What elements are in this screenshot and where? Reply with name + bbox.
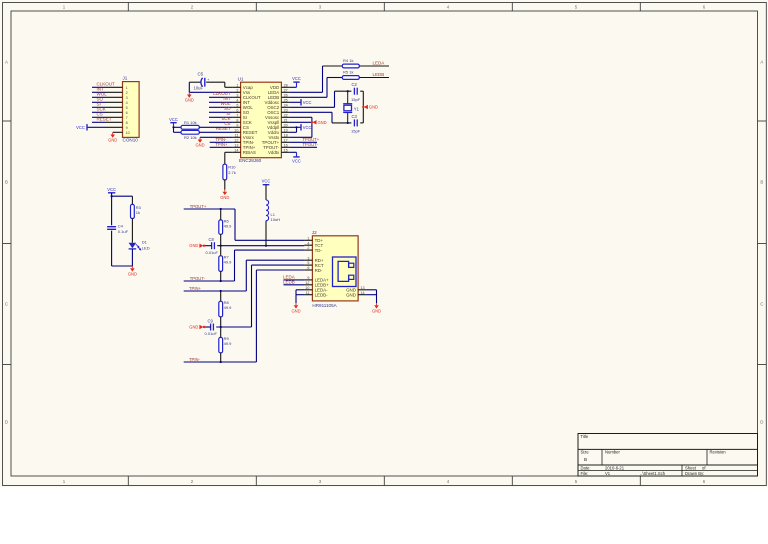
svg-text:1: 1 bbox=[236, 83, 238, 87]
svg-text:14: 14 bbox=[234, 148, 238, 152]
svg-text:25: 25 bbox=[284, 98, 288, 102]
wire TPIN- to RD- bbox=[256, 270, 304, 362]
capacitor C2 15pF bbox=[351, 82, 361, 102]
svg-text:13: 13 bbox=[361, 286, 365, 290]
svg-text:File:: File: bbox=[581, 471, 589, 476]
svg-text:10uH: 10uH bbox=[271, 217, 281, 222]
svg-text:TPIN+: TPIN+ bbox=[216, 142, 229, 147]
ground at U1 pin 11 bbox=[195, 137, 204, 147]
svg-text:GND: GND bbox=[189, 243, 198, 248]
node TPOUT- wire bbox=[184, 276, 235, 282]
svg-text:Number: Number bbox=[605, 450, 620, 455]
svg-text:C: C bbox=[5, 302, 8, 307]
svg-text:Drawn By:: Drawn By: bbox=[685, 471, 704, 476]
svg-text:10: 10 bbox=[305, 286, 309, 290]
svg-text:7: 7 bbox=[236, 113, 238, 117]
wire J2 LED cathodes to ground bbox=[296, 290, 304, 303]
svg-text:49.9: 49.9 bbox=[224, 341, 233, 346]
wire and node SI at U1 bbox=[209, 111, 233, 117]
svg-text:A: A bbox=[5, 60, 8, 65]
capacitor C9 0.01uF bbox=[204, 319, 218, 337]
svg-text:Title: Title bbox=[581, 434, 589, 439]
resistor R9 49.9 RX lower bbox=[219, 327, 232, 362]
wire and node SO at U1 bbox=[209, 106, 233, 112]
wire TPOUT- to TD- bbox=[235, 250, 305, 281]
svg-text:11: 11 bbox=[306, 291, 310, 295]
node TPIN+ wire bbox=[184, 286, 247, 291]
svg-text:27: 27 bbox=[284, 88, 288, 92]
svg-text:11: 11 bbox=[235, 133, 239, 137]
svg-text:2010-6-21: 2010-6-21 bbox=[605, 465, 625, 470]
svg-text:12: 12 bbox=[305, 281, 309, 285]
wire RX center node to RCT bbox=[216, 265, 304, 328]
svg-text:VCC: VCC bbox=[303, 100, 312, 105]
svg-text:GND: GND bbox=[346, 293, 356, 298]
svg-text:4: 4 bbox=[236, 98, 238, 102]
svg-text:3: 3 bbox=[307, 256, 309, 260]
svg-text:Size: Size bbox=[581, 450, 590, 455]
svg-text:TD-: TD- bbox=[315, 248, 323, 253]
wire and node SCK at U1 bbox=[209, 116, 233, 122]
power VCC at LED circuit bbox=[107, 187, 116, 193]
svg-text:D1: D1 bbox=[142, 240, 148, 245]
crystal Y1 bbox=[343, 90, 359, 124]
svg-text:2: 2 bbox=[236, 88, 238, 92]
ground at LED circuit bbox=[128, 266, 137, 276]
svg-text:TPIN+: TPIN+ bbox=[189, 286, 202, 291]
svg-text:0.01uF: 0.01uF bbox=[206, 250, 219, 255]
svg-text:LEDB-: LEDB- bbox=[315, 293, 328, 298]
resistor R3 1k bbox=[131, 204, 142, 242]
svg-text:17: 17 bbox=[284, 138, 288, 142]
svg-text:TPOUT+: TPOUT+ bbox=[190, 204, 207, 209]
svg-text:Vddtx: Vddtx bbox=[268, 150, 280, 155]
svg-text:B: B bbox=[5, 180, 8, 185]
svg-text:GND: GND bbox=[220, 195, 229, 200]
svg-text:GND: GND bbox=[369, 105, 378, 110]
svg-text:10uF: 10uF bbox=[194, 86, 204, 91]
svg-text:HR911105A: HR911105A bbox=[312, 303, 337, 308]
svg-text:R1 10k: R1 10k bbox=[184, 120, 197, 125]
svg-text:5: 5 bbox=[126, 106, 128, 110]
node TPIN+ at U1 bbox=[210, 142, 233, 147]
svg-text:VCC: VCC bbox=[292, 76, 301, 81]
svg-text:C9: C9 bbox=[208, 319, 214, 324]
svg-text:4: 4 bbox=[307, 241, 309, 245]
svg-text:5: 5 bbox=[236, 103, 238, 107]
svg-text:2: 2 bbox=[126, 91, 128, 95]
power VCC at U1 pin 15 bbox=[289, 152, 300, 163]
svg-text:49.9: 49.9 bbox=[224, 260, 233, 265]
svg-text:C3: C3 bbox=[352, 114, 358, 119]
node TPOUT- at U1 bbox=[289, 142, 318, 147]
svg-text:B: B bbox=[584, 457, 587, 462]
svg-text:10: 10 bbox=[234, 128, 238, 132]
svg-text:10: 10 bbox=[126, 131, 130, 135]
wire and node CLKOUT at U1 bbox=[209, 91, 233, 97]
svg-text:GND: GND bbox=[185, 98, 194, 103]
resistor R10 2.7k on RBIAS bbox=[223, 152, 236, 189]
ground at U1 pins 21 22 18 bbox=[311, 120, 327, 125]
svg-text:CON10: CON10 bbox=[123, 138, 139, 143]
svg-text:21: 21 bbox=[284, 118, 288, 122]
svg-text:0.1uF: 0.1uF bbox=[118, 229, 129, 234]
svg-text:VCC: VCC bbox=[303, 125, 312, 130]
ground at R10 bbox=[220, 190, 229, 200]
wire to LEDA label bbox=[359, 65, 389, 67]
wire OSC1 to crystal bbox=[289, 112, 363, 123]
power VCC at pull-ups bbox=[169, 117, 178, 127]
svg-text:V1: V1 bbox=[605, 471, 611, 476]
capacitor C3 15pF bbox=[351, 114, 361, 134]
svg-text:TPIN-: TPIN- bbox=[189, 357, 201, 362]
inductor L1 10uH bbox=[262, 179, 281, 247]
wire LEDB from U1 pin 26 bbox=[289, 78, 342, 98]
svg-text:GND: GND bbox=[291, 308, 300, 313]
svg-text:U1: U1 bbox=[238, 76, 244, 81]
svg-text:4: 4 bbox=[126, 101, 128, 105]
wire to LEDB label bbox=[359, 77, 389, 79]
svg-text:3: 3 bbox=[126, 96, 128, 100]
svg-text:6: 6 bbox=[236, 108, 238, 112]
capacitor C5 10uF at Vcap bbox=[189, 71, 232, 90]
svg-text:2.7k: 2.7k bbox=[228, 170, 236, 175]
svg-text:R5 1k: R5 1k bbox=[343, 70, 353, 75]
svg-text:RESET: RESET bbox=[97, 116, 112, 121]
svg-text:7: 7 bbox=[126, 116, 128, 120]
svg-text:15pF: 15pF bbox=[351, 97, 361, 102]
resistor R4 1k LEDA bbox=[342, 58, 359, 68]
svg-text:22: 22 bbox=[284, 113, 288, 117]
svg-text:49.9: 49.9 bbox=[224, 224, 233, 229]
wire LED circuit rails bbox=[111, 193, 133, 266]
svg-text:28: 28 bbox=[284, 83, 288, 87]
svg-text:Y1: Y1 bbox=[354, 107, 360, 112]
svg-text:VCC: VCC bbox=[169, 117, 178, 122]
svg-text:D: D bbox=[760, 420, 763, 425]
wire Vss to GND loop bbox=[189, 82, 232, 92]
svg-text:R4 1k: R4 1k bbox=[343, 58, 353, 63]
capacitor C8 0.01uF bbox=[204, 237, 219, 255]
connector J1 CON10 bbox=[92, 76, 139, 143]
svg-text:23: 23 bbox=[284, 108, 288, 112]
svg-text:19: 19 bbox=[284, 128, 288, 132]
svg-text:GND: GND bbox=[318, 120, 327, 125]
svg-text:VCC: VCC bbox=[76, 125, 85, 130]
resistor R6 49.9 TX upper bbox=[219, 208, 232, 246]
svg-text:Date:: Date: bbox=[581, 465, 591, 470]
svg-text:B: B bbox=[760, 180, 763, 185]
svg-text:GND: GND bbox=[189, 325, 198, 330]
svg-text:9: 9 bbox=[126, 126, 128, 130]
svg-text:LED: LED bbox=[142, 245, 150, 250]
svg-text:GND: GND bbox=[108, 138, 117, 143]
svg-text:R2 10k: R2 10k bbox=[184, 135, 197, 140]
svg-text:C5: C5 bbox=[198, 71, 204, 76]
ground at J2 LED pins bbox=[291, 303, 300, 313]
node TPIN- wire bbox=[184, 357, 257, 363]
svg-text:26: 26 bbox=[284, 93, 288, 97]
resistor R7 49.9 TX lower bbox=[219, 246, 232, 281]
LED D1 bbox=[129, 240, 150, 266]
svg-text:TPOUT-: TPOUT- bbox=[190, 276, 206, 281]
svg-text:20: 20 bbox=[284, 123, 288, 127]
svg-text:8: 8 bbox=[236, 118, 238, 122]
resistor R1 10k pull-up on CS bbox=[174, 120, 233, 129]
svg-text:+: + bbox=[207, 78, 209, 82]
svg-text:14: 14 bbox=[361, 291, 365, 295]
svg-text:C2: C2 bbox=[352, 82, 358, 87]
svg-text:..\Sheet1.Sch: ..\Sheet1.Sch bbox=[640, 471, 666, 476]
ground at J2 shield bbox=[372, 303, 381, 313]
svg-text:5: 5 bbox=[307, 261, 309, 265]
wire U1 pin 11 Vssrx bbox=[200, 136, 233, 138]
svg-text:TPOUT-: TPOUT- bbox=[303, 142, 319, 147]
svg-text:16: 16 bbox=[284, 143, 288, 147]
title block bbox=[578, 434, 758, 477]
wire TX center node to TCT bbox=[217, 245, 304, 247]
svg-text:VCC: VCC bbox=[107, 187, 116, 192]
svg-text:RD-: RD- bbox=[315, 268, 323, 273]
ground at J1 pin 10 bbox=[108, 132, 117, 142]
svg-text:J2: J2 bbox=[312, 230, 317, 235]
power VCC at J1 pin 9 bbox=[76, 124, 92, 130]
svg-text:9: 9 bbox=[236, 123, 238, 127]
ground at U1 pin 2 / C5 bbox=[185, 92, 194, 102]
svg-text:GND: GND bbox=[372, 308, 381, 313]
svg-text:49.9: 49.9 bbox=[224, 305, 233, 310]
svg-text:15pF: 15pF bbox=[351, 129, 361, 134]
svg-text:LEDB: LEDB bbox=[283, 279, 295, 284]
wire Vss pins 21 22 18 to ground bbox=[289, 117, 312, 137]
power VCC at U1 pin 25 bbox=[289, 99, 311, 105]
svg-text:Revision: Revision bbox=[710, 450, 727, 455]
svg-text:24: 24 bbox=[284, 103, 288, 107]
svg-text:9: 9 bbox=[307, 276, 309, 280]
svg-text:6: 6 bbox=[126, 111, 128, 115]
svg-text:Sheet: Sheet bbox=[685, 465, 697, 470]
resistor R5 1k LEDB bbox=[342, 70, 359, 80]
capacitor C4 0.1uF bbox=[107, 224, 128, 234]
svg-text:12: 12 bbox=[234, 138, 238, 142]
power VCC at U1 pins 20 19 bbox=[289, 124, 311, 132]
wire VCC rail for pull-ups bbox=[173, 127, 175, 132]
node TPOUT+ at U1 bbox=[289, 137, 319, 142]
svg-text:13: 13 bbox=[234, 143, 238, 147]
wire TPIN+ to RD+ bbox=[246, 260, 304, 291]
node TPIN- at U1 bbox=[210, 137, 233, 142]
svg-text:1: 1 bbox=[307, 236, 309, 240]
ground at C9 bbox=[189, 325, 205, 330]
power VCC at U1 pin 28 bbox=[289, 76, 300, 87]
svg-text:6: 6 bbox=[307, 266, 309, 270]
wire OSC2 to crystal bbox=[289, 91, 363, 107]
svg-text:0.01uF: 0.01uF bbox=[205, 331, 218, 336]
svg-text:18: 18 bbox=[284, 133, 288, 137]
svg-text:A: A bbox=[760, 60, 763, 65]
svg-text:ENC28J60: ENC28J60 bbox=[239, 158, 262, 163]
node TPOUT+ wire bbox=[184, 204, 235, 209]
svg-text:15: 15 bbox=[284, 148, 288, 152]
ground at C8 bbox=[189, 243, 205, 248]
svg-text:RBIAS: RBIAS bbox=[243, 150, 256, 155]
wire and node WOL at U1 bbox=[209, 101, 233, 107]
svg-text:C8: C8 bbox=[209, 237, 215, 242]
svg-text:D: D bbox=[5, 420, 8, 425]
resistor R8 49.9 RX upper bbox=[219, 290, 232, 327]
svg-text:1: 1 bbox=[126, 86, 128, 90]
svg-text:LEDB: LEDB bbox=[373, 72, 385, 77]
svg-text:1k: 1k bbox=[136, 210, 140, 215]
svg-text:C: C bbox=[760, 302, 763, 307]
node LEDB at J2 bbox=[283, 279, 304, 284]
wire TPOUT+ to TD+ bbox=[235, 209, 304, 240]
svg-text:VCC: VCC bbox=[292, 159, 301, 164]
wire crystal ground rail bbox=[362, 91, 364, 123]
svg-text:GND: GND bbox=[128, 271, 137, 276]
ground at crystal bbox=[362, 105, 378, 110]
svg-text:2: 2 bbox=[307, 246, 309, 250]
svg-text:GND: GND bbox=[195, 143, 204, 148]
wire LEDA from U1 pin 27 bbox=[289, 66, 342, 92]
wire J2 shield to ground bbox=[366, 290, 376, 303]
connector J2 HR911105A bbox=[304, 230, 366, 308]
svg-text:8: 8 bbox=[126, 121, 128, 125]
IC U1 ENC28J60 bbox=[233, 76, 290, 163]
svg-text:J1: J1 bbox=[123, 76, 128, 81]
wire and node INT at U1 bbox=[209, 96, 233, 102]
resistor R2 10k pull-up on RESET bbox=[174, 130, 233, 139]
svg-text:LEDA: LEDA bbox=[373, 60, 385, 65]
node LEDA at J2 bbox=[283, 275, 304, 280]
svg-text:3: 3 bbox=[236, 93, 238, 97]
svg-text:VCC: VCC bbox=[262, 179, 271, 184]
